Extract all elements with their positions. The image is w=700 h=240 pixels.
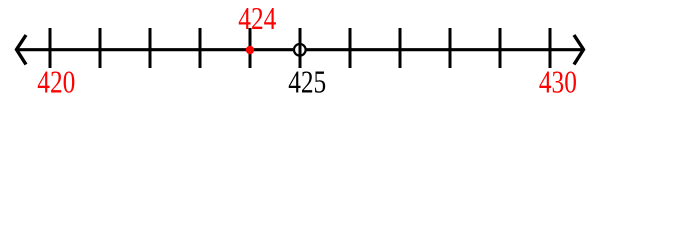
left arrowhead xyxy=(17,35,27,65)
open circle at 425 xyxy=(294,44,306,56)
tick 421 xyxy=(99,28,102,68)
tick 423 xyxy=(199,28,202,68)
tick 424 xyxy=(249,28,252,68)
tick 429 xyxy=(499,28,502,68)
svg-text:424: 424 xyxy=(238,3,276,37)
svg-text:430: 430 xyxy=(539,66,577,100)
number line axis xyxy=(16,48,584,51)
tick 420 xyxy=(49,28,52,68)
tick 428 xyxy=(449,28,452,68)
right arrowhead xyxy=(574,35,584,65)
tick 426 xyxy=(349,28,352,68)
svg-text:420: 420 xyxy=(37,66,75,100)
tick 427 xyxy=(399,28,402,68)
svg-text:425: 425 xyxy=(288,66,326,100)
tick 425 (drawn over circle) xyxy=(299,28,302,68)
tick 430 xyxy=(549,28,552,68)
tick 422 xyxy=(149,28,152,68)
red point at 424 xyxy=(246,46,254,54)
